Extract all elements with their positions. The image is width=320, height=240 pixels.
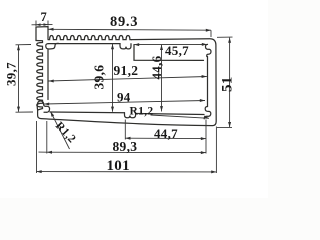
svg-text:45,7: 45,7 <box>165 43 189 58</box>
svg-text:39,6: 39,6 <box>92 65 107 90</box>
svg-text:7: 7 <box>41 10 48 24</box>
svg-text:R1,2: R1,2 <box>130 106 154 118</box>
svg-text:94: 94 <box>117 89 131 104</box>
svg-text:39,7: 39,7 <box>3 62 18 86</box>
svg-text:91,2: 91,2 <box>114 63 139 78</box>
svg-text:51: 51 <box>220 76 236 92</box>
svg-text:44,6: 44,6 <box>149 55 164 79</box>
svg-text:89,3: 89,3 <box>113 139 138 154</box>
svg-text:44,7: 44,7 <box>154 126 178 141</box>
svg-text:101: 101 <box>107 158 130 174</box>
svg-text:89.3: 89.3 <box>110 14 138 30</box>
